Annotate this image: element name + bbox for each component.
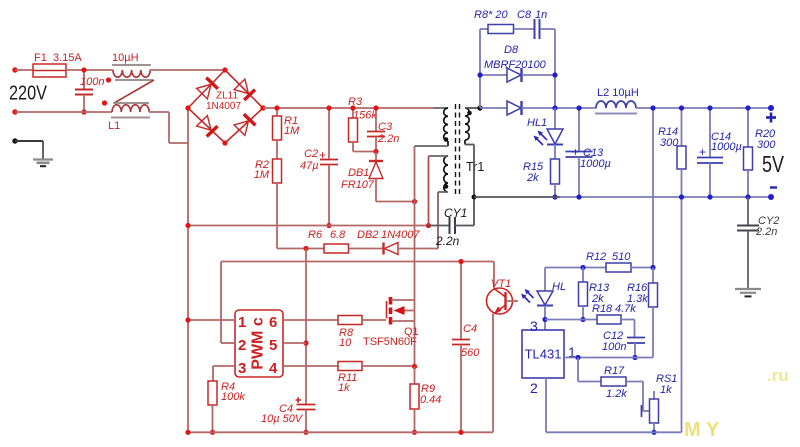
svg-text:3: 3	[238, 360, 246, 377]
capacitor C3 2.2n	[367, 108, 399, 152]
node C2 bottom	[326, 223, 331, 228]
svg-text:5V: 5V	[762, 151, 785, 177]
svg-text:FR107: FR107	[341, 179, 375, 191]
node R3/C3/DB1 junction	[373, 149, 378, 154]
node C4 560 top	[458, 259, 463, 264]
wire drain line	[414, 146, 416, 300]
svg-text:10µ 50V: 10µ 50V	[261, 413, 304, 425]
svg-text:220V: 220V	[9, 83, 48, 105]
node R12 right	[650, 265, 655, 270]
svg-text:1.2k: 1.2k	[606, 388, 627, 400]
svg-text:R17: R17	[604, 365, 625, 377]
node bridge right	[260, 105, 265, 110]
node bus/left junction	[185, 223, 190, 228]
node C4 560 bottom	[458, 430, 463, 435]
svg-text:R3: R3	[348, 96, 363, 108]
svg-text:TSF5N60F: TSF5N60F	[363, 336, 417, 348]
svg-text:0.44: 0.44	[420, 394, 441, 406]
svg-text:2: 2	[530, 380, 538, 396]
resistor R1 1M	[273, 108, 301, 140]
diode DB2 1N4007	[349, 229, 439, 255]
node HL cathode junction	[542, 317, 547, 322]
wire L1 to bridge (zigzag)	[149, 112, 188, 143]
wire bottom bus	[188, 431, 493, 433]
svg-text:L2 10µH: L2 10µH	[597, 87, 639, 99]
svg-text:156k: 156k	[353, 110, 377, 122]
fuse F1 3.15A	[33, 52, 82, 77]
svg-text:C8: C8	[517, 9, 532, 21]
resistor R20 300	[744, 108, 777, 197]
node C14 top	[707, 105, 712, 110]
svg-text:DB2: DB2	[357, 229, 378, 241]
capacitor CY2 2.2n	[737, 197, 779, 289]
capacitor CY1 2.2n	[429, 206, 475, 248]
node R13 bottom	[580, 317, 585, 322]
node pin1/bus junction	[185, 317, 190, 322]
svg-text:PWM c: PWM c	[250, 317, 267, 370]
resistor R16 1.3k	[627, 268, 658, 358]
label 220V	[9, 83, 48, 105]
svg-text:4.7k: 4.7k	[615, 303, 636, 315]
resistor R17 1.2k	[578, 358, 643, 401]
resistor R4 100k	[208, 381, 245, 432]
wire pin1 TL431	[564, 357, 653, 359]
terminal output plus	[766, 105, 776, 123]
node rail/653 junction	[650, 105, 655, 110]
svg-text:VT1: VT1	[491, 278, 511, 290]
resistor R9 0.44	[410, 367, 441, 433]
wire input top	[15, 69, 33, 71]
resistor R12 510	[545, 251, 653, 272]
node R6 left (Vcc feed)	[303, 246, 308, 251]
node source/R11/R9 junction	[412, 364, 417, 369]
node R14 top	[679, 105, 684, 110]
capacitor C14 1000u	[697, 108, 742, 197]
wire DC+ rail	[263, 107, 435, 109]
transformer Tr1 aux winding	[429, 156, 449, 226]
svg-text:CY1: CY1	[444, 206, 467, 220]
node C4 bottom bus	[303, 430, 308, 435]
capacitor 100n	[75, 70, 104, 112]
svg-text:L1: L1	[108, 120, 120, 132]
svg-text:C3: C3	[378, 121, 393, 133]
node secondary top junction	[477, 105, 482, 110]
wire pin5 stub	[283, 342, 306, 344]
diode D8 lower	[480, 101, 596, 115]
LED HL optocoupler	[521, 268, 566, 331]
wire input bottom	[15, 111, 112, 113]
resistor R2 1M	[254, 159, 282, 183]
transformer Tr1 primary winding	[415, 108, 449, 146]
svg-text:100n: 100n	[80, 76, 104, 88]
wire secondary gnd rail left	[474, 196, 560, 198]
transistor VT1 optocoupler	[487, 262, 519, 433]
svg-text:2.2n: 2.2n	[435, 234, 460, 248]
node pin1/R17 junction	[575, 355, 580, 360]
svg-text:560: 560	[461, 347, 480, 359]
wire primary ground bus	[188, 225, 429, 227]
wire pin3 to R4	[213, 366, 235, 381]
svg-text:1M: 1M	[254, 169, 270, 181]
node bridge top	[222, 67, 227, 72]
svg-text:10µH: 10µH	[112, 52, 139, 64]
node bus left corner	[185, 430, 190, 435]
svg-text:100k: 100k	[221, 391, 245, 403]
svg-text:C2: C2	[304, 148, 318, 160]
node bridge left	[185, 105, 190, 110]
wire aux winding return	[437, 192, 439, 249]
terminal output minus	[768, 188, 777, 201]
svg-text:2: 2	[238, 337, 246, 354]
capacitor C2 47u	[300, 108, 338, 226]
node R9 bottom bus	[412, 430, 417, 435]
wire Vcc vertical	[305, 249, 307, 405]
node diode out	[552, 105, 557, 110]
svg-text:R8* 20: R8* 20	[474, 9, 509, 21]
svg-text:ZL11: ZL11	[216, 91, 238, 102]
resistor R3 156k	[348, 96, 377, 152]
node R15 bottom	[552, 194, 557, 199]
transformer Tr1 secondary winding	[465, 108, 480, 226]
svg-text:TL431: TL431	[525, 347, 562, 362]
transformer Tr1 core	[456, 104, 485, 196]
node R1 top	[274, 105, 279, 110]
resistor R13 2k	[579, 268, 611, 320]
wire R12 feed vertical	[652, 108, 654, 268]
wire 10uH to bridge	[150, 69, 225, 71]
node R3 top	[350, 105, 355, 110]
svg-text:1000µ: 1000µ	[711, 141, 742, 153]
svg-text:R18: R18	[592, 303, 613, 315]
terminal PE ground	[12, 138, 43, 158]
wire pin1 to left bus	[188, 319, 235, 321]
svg-text:+: +	[319, 148, 326, 162]
ground symbol CY2	[735, 289, 761, 296]
node DB1/drain junction	[412, 199, 417, 204]
inductor 10uH (choke top winding)	[112, 52, 151, 77]
wire R17 to RS1 wiper	[642, 382, 650, 418]
svg-text:D8: D8	[504, 44, 519, 56]
wire left bus	[187, 108, 189, 432]
op-amp U2 TL431	[522, 318, 576, 396]
svg-text:MBRF20100: MBRF20100	[484, 59, 547, 71]
svg-text:1N4007: 1N4007	[206, 101, 241, 112]
resistor R8 10	[283, 316, 386, 350]
wire secondary gnd rail	[560, 196, 771, 198]
capacitor C13 1000u	[566, 108, 611, 197]
svg-text:R12: R12	[586, 251, 606, 263]
node C14 bottom	[707, 194, 712, 199]
node R4 bottom bus	[210, 430, 215, 435]
svg-text:510: 510	[612, 251, 631, 263]
choke polarity mark Z	[102, 77, 154, 105]
transistor Q1 TSF5N60F	[363, 297, 419, 367]
wire R1-R2	[276, 140, 278, 159]
svg-text:HL: HL	[552, 281, 566, 293]
svg-text:DB1: DB1	[348, 167, 369, 179]
svg-text:1k: 1k	[660, 384, 672, 396]
node C3 top	[373, 105, 378, 110]
resistor R18 4.7k	[545, 303, 636, 337]
capacitor C4 10u 50V	[261, 397, 316, 432]
svg-text:F1 3.15A: F1 3.15A	[34, 52, 82, 64]
node C2 top	[326, 105, 331, 110]
svg-text:HL1: HL1	[527, 117, 547, 129]
op-amp U1 PWM controller	[235, 310, 283, 377]
capacitor C12 100n	[602, 330, 645, 358]
watermark	[684, 366, 789, 441]
node R12 left	[580, 265, 585, 270]
svg-text:1000µ: 1000µ	[580, 158, 611, 170]
wire R2 down to Vcc node	[277, 183, 306, 249]
node C13 bottom	[576, 194, 581, 199]
svg-text:300: 300	[757, 139, 776, 151]
node R20 top	[745, 105, 750, 110]
svg-text:+: +	[699, 145, 706, 159]
svg-text:Tr1: Tr1	[466, 160, 484, 174]
node bridge bottom	[222, 140, 227, 145]
svg-text:6.8: 6.8	[330, 229, 346, 241]
ground symbol input	[33, 160, 53, 167]
svg-text:100n: 100n	[602, 341, 626, 353]
svg-text:6: 6	[269, 314, 277, 331]
node 100n bottom junction	[81, 109, 86, 114]
wire pin2 to feedback line	[221, 262, 235, 344]
svg-text:+: +	[572, 145, 579, 159]
svg-text:2k: 2k	[526, 172, 539, 184]
svg-text:1: 1	[238, 314, 246, 331]
svg-text:1N4007: 1N4007	[381, 229, 420, 241]
svg-text:1M: 1M	[284, 125, 300, 137]
node R20 bottom	[745, 194, 750, 199]
resistor R11 1k	[283, 362, 415, 395]
inductor L2 10uH	[595, 87, 639, 114]
terminal input L	[12, 67, 17, 72]
node C12 bottom	[632, 355, 637, 360]
svg-text:.ru: .ru	[767, 366, 789, 385]
resistor R14 300	[658, 108, 686, 432]
node fuse/100n junction	[81, 67, 86, 72]
capacitor C4 560	[452, 262, 480, 433]
LED HL1	[527, 108, 563, 159]
svg-text:R6: R6	[308, 229, 323, 241]
svg-text:1k: 1k	[338, 382, 350, 394]
node bus/CY1 junction	[426, 223, 431, 228]
resistor R6 6.8	[306, 229, 349, 253]
wire output plus rail	[636, 107, 771, 109]
svg-text:3: 3	[530, 318, 538, 334]
node D8 right	[552, 72, 557, 77]
wire fuse to node	[66, 69, 113, 71]
node RS1 bottom	[651, 430, 656, 435]
resistor R15 2k	[523, 159, 560, 197]
diode DB1 FR107	[341, 152, 415, 202]
node pin5 Vcc junction	[303, 340, 308, 345]
wire feedback horizontal to VT1	[221, 261, 494, 263]
node C13 top	[576, 105, 581, 110]
svg-text:5: 5	[269, 337, 277, 354]
svg-text:C4: C4	[463, 323, 477, 335]
node secondary bottom junction	[472, 195, 477, 200]
svg-text:1n: 1n	[535, 9, 547, 21]
svg-text:2.2n: 2.2n	[377, 133, 399, 145]
node D8 left	[477, 72, 482, 77]
svg-text:4: 4	[269, 360, 278, 377]
wire TL431 pin2 to gnd bus	[546, 378, 682, 432]
svg-text:47µ: 47µ	[300, 160, 319, 172]
svg-text:M Y: M Y	[684, 419, 720, 441]
svg-text:10: 10	[339, 337, 352, 349]
diode D8 MBRF20100 upper	[474, 9, 555, 108]
resistor RS1 1k trimmer	[650, 373, 678, 432]
terminal input N	[12, 109, 17, 114]
node R14 rail crossing	[679, 194, 684, 199]
svg-text:2.2n: 2.2n	[755, 226, 777, 238]
bridge rectifier ZL11 1N4007	[188, 70, 263, 143]
svg-text:300: 300	[660, 137, 679, 149]
label 5V	[762, 151, 785, 177]
inductor L1 (choke bottom winding)	[108, 105, 150, 132]
